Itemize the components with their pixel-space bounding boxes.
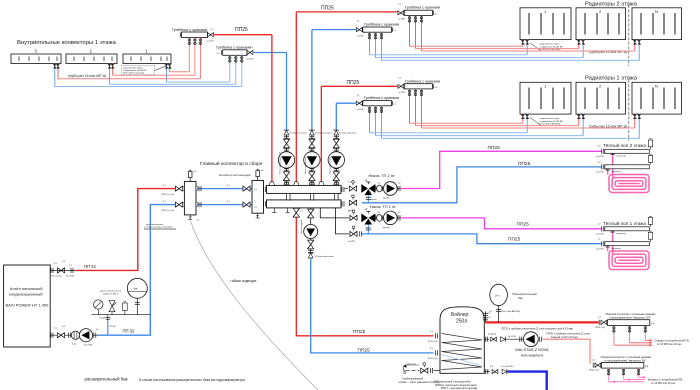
pump: Насос ТП 2 эт [384,182,398,196]
dashed separation line 1st floor [628,80,630,141]
svg-text:ПП32 к трубкам утеплителя (2: ПП32 к трубкам утеплителя (2 слоя толщин… [502,326,574,330]
valve at return manifold [247,50,253,54]
pipe: blue riser convector return down to pump group 1 [286,53,288,131]
pipe: blue to 1st floor return manifold [336,102,356,104]
svg-text:4-2(1)мм: 4-2(1)мм [488,334,497,336]
convector 1 [123,54,171,64]
stub feed to ТП1 supply row from collector bottom bar [320,208,349,218]
bypass from 3-way to return ТП1 [367,225,369,234]
pipe: red lines to radiators 1st floor [410,123,635,128]
radiator 2-2 [576,8,626,40]
svg-text:уст-ПП4: уст-ПП4 [596,171,604,173]
pipe: blue return from floor heating 1st floor [361,234,602,244]
valve [349,181,356,192]
upper manifold stubs [614,325,645,345]
svg-text:с-о-t-ПП: с-о-t-ПП [206,40,214,43]
stub feed to ТП1 return row from collector bottom bar [336,208,350,234]
collector bottom capped stubs [272,208,289,213]
svg-text:Гребёнка с кранами: Гребёнка с кранами [364,96,399,100]
pipe: recirculation to return manifold (salmon) [543,339,590,364]
lower manifold stubs [609,368,639,382]
valve on ТП1 return [350,226,357,237]
svg-text:1-б: 1-б [651,322,655,325]
pipe: DHW feeds to consumers (salmon) [614,340,650,345]
air vent ТП1 return [648,231,652,242]
header drain stub [256,213,260,218]
svg-text:1-б: 1-б [645,365,649,368]
bar interconnectors [287,193,339,200]
svg-text:каждый слой 6-10 мм): каждый слой 6-10 мм) [551,335,578,339]
ТП1 supply row [375,217,400,219]
separator drain stub [188,215,192,220]
pipe: magenta supply to floor heating 2nd floor [401,151,602,188]
svg-text:N: N [655,9,658,14]
expansion vessel (heating) [127,278,147,298]
svg-text:Гребёнка с кранами: Гребёнка с кранами [405,6,440,10]
svg-text:Насос циркуляционный: Насос циркуляционный [279,152,282,174]
svg-text:ПП25: ПП25 [235,27,248,33]
svg-text:Насос загрузки: Насос загрузки [301,220,303,234]
ТП2 supply manifold [602,149,604,154]
svg-text:подключение через: подключение через [123,67,143,69]
DHW loading pump column below collector [300,208,334,258]
pipe: DHW hot main to distribution manifold [485,321,598,323]
pump group 3 (radiators 1st floor) [328,130,356,185]
svg-text:1/2 (ВР 3/4): 1/2 (ВР 3/4) [99,318,111,320]
pipe: blue from DHW loading pump down to tank [311,258,434,353]
svg-text:Гребёнка с кранами: Гребёнка с кранами [216,46,251,50]
pipe: red ПП25 from convector supply manifold to riser [214,34,272,36]
svg-text:Ду 15/20: Ду 15/20 [508,336,517,338]
pipe: blue lines to radiators 1st floor [370,133,640,139]
convector connection stubs with shut-off valves [58,64,170,79]
svg-text:Бойлер: Бойлер [451,311,469,318]
DHW outlet stub on dome [484,312,486,323]
svg-text:СГВ-1 (или ВАЛТЕК): СГВ-1 (или ВАЛТЕК) [501,310,520,313]
pipe: red riser radiators 1st floor [320,86,322,181]
boiler BAXI POWER HT 1.450 [4,265,51,347]
svg-text:(ПП4 и 14): (ПП4 и 14) [428,358,438,360]
svg-text:ПП32-1 (и 14): ПП32-1 (и 14) [161,194,174,196]
cold water inlet assembly [484,371,490,373]
valve: boiler return to separator [175,202,182,207]
valve: boiler supply to separator [175,186,182,191]
pipe: DHW returns from consumers (pink) [609,377,645,381]
note box: подключение через соединитель [122,66,167,75]
svg-text:ПП25: ПП25 [508,237,521,243]
radiator stubs 2nd floor [523,40,635,51]
svg-text:соединитель 16-3/4 ВР: соединитель 16-3/4 ВР [123,70,147,72]
svg-text:конденсационный: конденсационный [9,292,43,297]
svg-text:ПП20 и трубкам утеплителя (2: ПП20 и трубкам утеплителя (2 слоя, [547,332,591,336]
valve at manifold outlet [208,33,214,37]
svg-text:с-t-ПП4: с-t-ПП4 [357,108,365,111]
svg-text:Котёл напольный: Котёл напольный [10,286,42,291]
recirculation line from tank [484,338,489,340]
svg-text:(ПП4 и 14): (ПП4 и 14) [428,341,438,343]
svg-text:Гребёнка с кранами: Гребёнка с кранами [364,23,399,27]
pipe: red lines to radiators 2nd floor [410,46,635,51]
pipe: separator to main header return [198,204,253,206]
dip tube curve [441,355,481,367]
pipe: red ПП25 to 1st floor radiator manifold [321,85,398,87]
ТП1 supply manifold [602,226,604,231]
pump: DHW loading [304,225,318,239]
three-way mixing valve ТП2 [361,182,375,195]
svg-text:250л: 250л [456,319,467,325]
svg-text:(по ПП4): (по ПП4) [66,276,74,278]
radiator 1-N [632,82,682,114]
pump group 1 (convectors) [278,130,306,185]
DHW tank Бойлер 250л [440,307,484,374]
valve: DHW red drop below collector [293,208,299,217]
svg-text:ПП25: ПП25 [518,161,531,167]
pipe: blue to 2nd floor return manifold [312,29,356,31]
svg-text:подключение через: подключение через [540,118,560,120]
svg-text:с-t-ПП4: с-t-ПП4 [398,18,406,21]
svg-text:ПП 32: ПП 32 [84,264,97,269]
svg-text:1/2 обратный клапан: 1/2 обратный клапан [315,132,332,135]
heat exchanger coil [442,334,483,370]
hydraulic separator [183,181,198,215]
svg-text:и присоединением "евроконус 3/: и присоединением "евроконус 3/4" [609,315,651,319]
safety group line [92,314,151,316]
pump group 2 (radiators 2nd floor) [304,130,332,185]
main collector header box [252,181,264,214]
svg-text:Тёплый пол 1 этажа: Тёплый пол 1 этажа [603,220,646,226]
svg-text:N: N [655,84,658,89]
pressure gauge [94,300,103,315]
euroconus connectors ТП2 [611,153,615,154]
combo safety valve at tank [406,370,420,372]
svg-text:подключение через: подключение через [540,44,560,46]
radiator 2-N [632,8,682,40]
pump: Насос ТП 1 эт [384,211,398,225]
pipe: blue riser radiators 2nd floor return down to pump group 2 [311,30,313,131]
svg-text:ПП20-1 (и): ПП20-1 (и) [589,370,599,372]
pipe: red from collector down to DHW tank heat exchanger [296,208,433,336]
svg-text:Сборный коллектор с отсечными: Сборный коллектор с отсечными кранами [601,355,652,359]
svg-text:ПП25: ПП25 [347,80,360,86]
svg-text:и присоединением "евроконус 3/: и присоединением "евроконус 3/4" [605,358,647,362]
svg-text:уст-ПП4: уст-ПП4 [596,248,604,250]
к дренажу arrow [404,371,406,373]
note: подключение через соединитель (1st floor) [530,118,563,126]
filter [71,331,79,339]
lower DHW manifold bar [602,362,644,368]
svg-text:ПП25: ПП25 [353,329,366,335]
valve on ТП2 return [349,195,356,206]
svg-text:расширительный бак: расширительный бак [85,377,128,382]
valve at upper manifold inlet [599,320,601,325]
fittings: top bar connections [269,182,274,186]
svg-text:ПП 32: ПП 32 [123,329,136,334]
collector supply bar [264,185,344,193]
svg-text:ПП (3): ПП (3) [110,326,116,328]
svg-text:евроконус: евроконус [612,171,622,173]
convector 2 [66,54,117,64]
valve at lower manifold inlet [593,363,595,368]
svg-text:1/2 обратный клапан: 1/2 обратный клапан [289,132,306,135]
svg-text:Радиаторы 2 этажа: Радиаторы 2 этажа [585,1,638,7]
svg-text:с-t-ПП4: с-t-ПП4 [357,34,365,37]
pipe: blue riser radiators 1st floor return down to pump group 3 [335,103,337,130]
svg-text:BAXI POWER HT 1.450: BAXI POWER HT 1.450 [6,303,50,308]
svg-text:цир рас: цир рас [383,227,390,229]
svg-text:Тёплый пол 2 этажа: Тёплый пол 2 этажа [603,142,646,148]
air vent on separator [188,170,192,181]
pipe: magenta supply to floor heating 1st floor [401,218,602,229]
note: подключение через соединитель (2nd floor) [530,43,563,51]
radiator 1-2 [576,82,626,114]
svg-text:об-ПП4: об-ПП4 [348,241,356,243]
dashed separation line 2nd floor [628,5,630,66]
svg-text:Внутрипольные конвекторы 1 эта: Внутрипольные конвекторы 1 этажа [17,40,116,46]
safety group connection to return [106,315,110,321]
tank heating inlet flanges [436,333,438,338]
pump: Wilo STAR-Z NOVA [524,332,539,347]
auto air vent [123,302,128,315]
air vent ТП2 return [648,154,652,165]
boiler return connection: flange + valve + filter + pump + flange [50,334,97,336]
svg-text:ПП25: ПП25 [321,5,334,11]
svg-text:1/2 обратный клапан: 1/2 обратный клапан [315,255,334,258]
svg-text:ПП32-1 (и 14): ПП32-1 (и 14) [161,210,174,212]
note: кран подпитки [144,224,176,230]
ТП2 supply row from collector [345,188,400,190]
boiler supply connection: flange + valve + flange [51,268,53,273]
radiator stubs 1st floor [523,114,635,128]
air vent ТП2 supply [648,139,652,150]
svg-text:Возврат от потребителей ГВ: Возврат от потребителей ГВ [648,377,683,381]
svg-text:Радиаторы 1 этажа: Радиаторы 1 этажа [585,76,638,82]
pipe: red boiler supply riser [76,189,177,271]
svg-text:(VTm.302 & аналоги): (VTm.302 & аналоги) [123,73,144,75]
svg-text:уст-ПП4: уст-ПП4 [596,156,604,158]
bypass from 3-way to return ТП2 [367,195,369,203]
svg-text:евроконус: евроконус [617,233,627,235]
svg-text:группа безопасности: группа безопасности [100,291,122,293]
pipe: red riser radiators 2nd floor [295,12,297,182]
svg-text:от 16 МП или 16 рех: от 16 МП или 16 рех [651,381,676,385]
svg-text:евроконус: евроконус [612,248,622,250]
svg-text:цир рас: цир рас [383,198,390,200]
svg-text:с-t-ПП4: с-t-ПП4 [398,91,406,94]
pipe: blue boiler return riser [97,205,176,336]
svg-text:Насос радиаторов: Насос радиаторов [305,157,307,174]
svg-text:Гребёнка с кранами: Гребёнка с кранами [405,79,440,83]
pipe: blue return from floor heating 2nd floor [362,167,602,203]
three-way mixing valve ТП1 [361,211,375,224]
svg-text:гибкая подводка: гибкая подводка [231,279,257,283]
svg-text:В случае использования расшири: В случае использования расширительного б… [139,378,245,382]
svg-text:трубы рех 16 или МП 16: трубы рех 16 или МП 16 [589,50,627,54]
svg-text:ПП25: ПП25 [488,145,501,151]
air vent on header box [256,169,260,180]
svg-text:евроконус: евроконус [617,156,627,158]
svg-text:Насос радиаторов: Насос радиаторов [329,157,331,174]
svg-text:1/2 обратный клапан: 1/2 обратный клапан [339,132,356,135]
svg-text:ПП-1 (и 14): ПП-1 (и 14) [51,276,62,278]
air vent ТП1 supply [648,216,652,227]
euroconus connectors ТП1 [611,231,615,232]
radiator 1-1 [520,82,571,114]
svg-text:соединитель 16-3/4 ВР: соединитель 16-3/4 ВР [540,121,564,123]
svg-text:с-о-t-ПП: с-о-t-ПП [246,57,254,60]
svg-text:(по ПП4): (по ПП4) [84,345,92,347]
floor loop spiral 2nd floor [608,152,649,193]
svg-text:цирк-й: цирк-й [371,198,377,201]
collector return bar [264,200,344,208]
svg-text:24 л: 24 л [495,294,500,297]
radiator 2-1 [520,8,571,40]
svg-text:hobbit VT.495.0: hobbit VT.495.0 [103,292,119,295]
pipe: blue return from convector manifold to riser [254,52,287,54]
pump: boiler circuit [79,329,92,342]
svg-text:ПП25: ПП25 [517,222,530,228]
floor loop spiral 1st floor [608,229,649,270]
svg-text:Главный коллектор в сборе: Главный коллектор в сборе [200,160,263,167]
svg-text:и слива системы отопления: и слива системы отопления [144,227,173,229]
pipe: blue lines to radiators 2nd floor [370,55,640,61]
svg-text:кран заполнения: кран заполнения [146,224,164,226]
svg-text:Wilo STAR-Z NOVA: Wilo STAR-Z NOVA [515,348,549,352]
svg-text:3-4у: 3-4у [72,344,76,346]
leader curve: гибкая подводка [191,221,319,390]
svg-text:Гребёнка с кранами: Гребёнка с кранами [172,28,207,32]
svg-text:ПП25: ПП25 [358,348,371,354]
svg-text:бак: бак [518,296,523,300]
svg-text:уст-ПП4: уст-ПП4 [596,233,604,235]
convector 3 [11,54,61,64]
svg-text:Расширительный: Расширительный [513,292,538,296]
DHW expansion tank [490,284,508,305]
pipe: red ПП25 to 2nd floor radiator manifold [296,11,398,13]
svg-text:Насос ТП 2 эт: Насос ТП 2 эт [369,173,395,178]
pipe: cold water inlet (thick blue) [508,372,547,390]
svg-text:Сборный коллектор с отсечными: Сборный коллектор с отсечными кранами [605,312,656,316]
svg-text:соединитель 16-3/4 ВР: соединитель 16-3/4 ВР [540,46,564,48]
svg-text:или аналоги.: или аналоги. [521,354,544,358]
safety valve [109,301,117,315]
svg-text:Насос ТП 1 эт: Насос ТП 1 эт [370,204,396,209]
pipe: separator to main header (secondary, blue) supply [198,188,253,190]
svg-text:Коллектор на 6 выходов: Коллектор на 6 выходов [219,173,251,177]
pipe: red riser convector circuit [271,35,273,182]
svg-text:1-2 (или ВЗУ): 1-2 (или ВЗУ) [501,366,514,368]
svg-text:от 16 МП или 16 рех: от 16 МП или 16 рех [657,342,682,346]
svg-text:Отводы на потребителей ГВ: Отводы на потребителей ГВ [655,338,689,342]
pipe: convector return lines (blue) [55,63,242,87]
pipe: convector supply lines (red) [58,46,201,79]
svg-text:трубы рех 16 или МП 16: трубы рех 16 или МП 16 [68,74,106,78]
svg-text:ПП32-1 (и): ПП32-1 (и) [595,327,605,329]
upper DHW manifold bar [608,320,650,326]
